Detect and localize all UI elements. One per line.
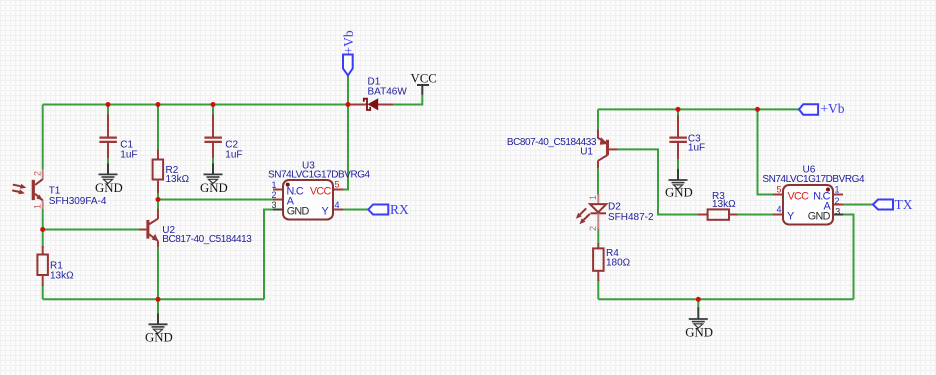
ground under C2 [200,164,228,196]
wire U6 pin2 to TX [843,204,873,206]
junction at U2 emitter / bottom rail / ground [156,297,161,302]
TX port flag [873,197,913,212]
svg-text:13kΩ: 13kΩ [712,199,736,210]
svg-text:1uF: 1uF [225,150,242,161]
svg-text:1: 1 [33,204,43,209]
ground bottom rail (right) [685,299,713,339]
resistor R2 [153,105,190,200]
IC U3 SN74LVC1G17DBVRG4 [268,161,371,220]
wire R4 to bottom rail [597,280,599,299]
junction at U6 pin5 riser / top rail right [755,107,760,112]
ground under C1 [95,164,123,196]
wire left column bottom (R1 to bottom rail) [42,285,44,299]
VCC power symbol [411,72,437,95]
wire D2 to R4 [597,228,599,244]
svg-text:Y: Y [787,210,794,222]
junction at C2 / top rail [211,102,216,107]
svg-text:+Vb: +Vb [820,101,844,116]
svg-text:3: 3 [271,200,276,210]
svg-text:1: 1 [835,185,840,195]
resistor R4 [593,243,631,281]
wire U1 collector to D2 [597,167,599,195]
capacitor C3 [669,109,705,169]
svg-text:3: 3 [835,207,840,217]
wire U1 emitter column [597,109,599,130]
resistor R3 [698,191,738,220]
svg-text:SFH309FA-4: SFH309FA-4 [49,196,107,207]
svg-text:D2: D2 [608,202,621,213]
ground under U2 (bottom rail) [145,299,173,344]
wire riser to U3 pin3 [264,210,273,300]
svg-text:5: 5 [776,185,781,195]
svg-text:2: 2 [835,196,840,206]
wire top rail right [598,108,799,110]
junction at T1 emitter / R1 / base wire [40,227,45,232]
junction at C3 / top rail right [676,107,681,112]
svg-text:+Vb: +Vb [341,30,356,54]
svg-text:SN74LVC1G17DBVRG4: SN74LVC1G17DBVRG4 [268,170,371,181]
junction at R2 / U2 collector / U3 pin2 wire [156,197,161,202]
svg-text:GND: GND [287,205,310,217]
svg-text:BAT46W: BAT46W [368,87,408,98]
svg-text:GND: GND [685,326,713,340]
svg-text:VCC: VCC [310,186,332,198]
svg-text:4: 4 [335,200,340,210]
junction at +Vb / D1 / top rail [346,102,351,107]
wire bottom rail right [598,298,853,300]
RX port flag [368,202,409,217]
svg-text:T1: T1 [49,186,61,197]
wire diode right to VCC [393,94,422,105]
svg-text:GND: GND [145,331,173,345]
svg-text:2: 2 [33,171,43,176]
svg-text:4: 4 [776,205,781,215]
svg-text:1uF: 1uF [120,150,137,161]
wire top rail left [43,104,348,106]
wire left column top [42,105,44,170]
IC U6 SN74LVC1G17DBVRG4 [762,165,865,225]
svg-text:5: 5 [335,180,340,190]
wire riser to U6 pin3 [843,215,854,300]
wire R2 bottom to U3 pin2 [158,199,273,201]
svg-text:2: 2 [588,226,598,231]
wire bottom rail [43,298,264,300]
svg-text:U1: U1 [580,147,593,158]
svg-text:BC817-40_C5184413: BC817-40_C5184413 [162,234,252,245]
junction at R2 / top rail [156,102,161,107]
phototransistor T1 SFH309FA-4 [12,169,107,209]
svg-text:VCC: VCC [788,191,810,203]
svg-text:1: 1 [588,195,598,200]
wire left column mid (T1 emitter to base-rail junction) [42,209,44,248]
svg-text:1: 1 [271,180,276,190]
wire R3 to U6 pin4 [738,214,773,216]
svg-text:Y: Y [322,205,329,217]
svg-text:TX: TX [895,197,913,212]
wire U3 pin5 riser [343,105,348,190]
svg-text:GND: GND [95,181,123,195]
svg-text:13kΩ: 13kΩ [50,271,74,282]
wire +Vb riser to U6 pin5 [758,109,774,194]
capacitor C1 [99,105,137,164]
svg-text:GND: GND [808,210,831,222]
wire U1 base to R3 [618,149,698,214]
svg-text:1uF: 1uF [688,142,705,153]
svg-text:GND: GND [665,186,693,200]
diode D1 BAT46W [348,77,407,111]
svg-text:13kΩ: 13kΩ [166,174,190,185]
wire base rail [43,229,139,231]
+Vb port flag (vertical, left circuit) [341,30,356,104]
resistor R1 [37,246,74,286]
transistor U2 BC817-40_C5184413 [139,200,252,300]
ground under C3 [665,169,693,200]
svg-text:RX: RX [390,202,409,217]
wire U3 pin4 to RX [343,209,368,211]
LED D2 SFH487-2 [576,194,654,231]
svg-text:SN74LVC1G17DBVRG4: SN74LVC1G17DBVRG4 [762,174,865,185]
svg-text:180Ω: 180Ω [606,258,631,269]
capacitor C2 [204,105,242,164]
svg-text:VCC: VCC [411,72,437,86]
junction at C1 / top rail [106,102,111,107]
junction at ground / bottom rail right [696,297,701,302]
svg-text:GND: GND [200,181,228,195]
transistor U1 BC807-40_C5184433 [507,129,618,168]
+Vb port flag (right circuit) [799,101,845,116]
svg-text:SFH487-2: SFH487-2 [608,212,654,223]
svg-text:2: 2 [271,190,276,200]
